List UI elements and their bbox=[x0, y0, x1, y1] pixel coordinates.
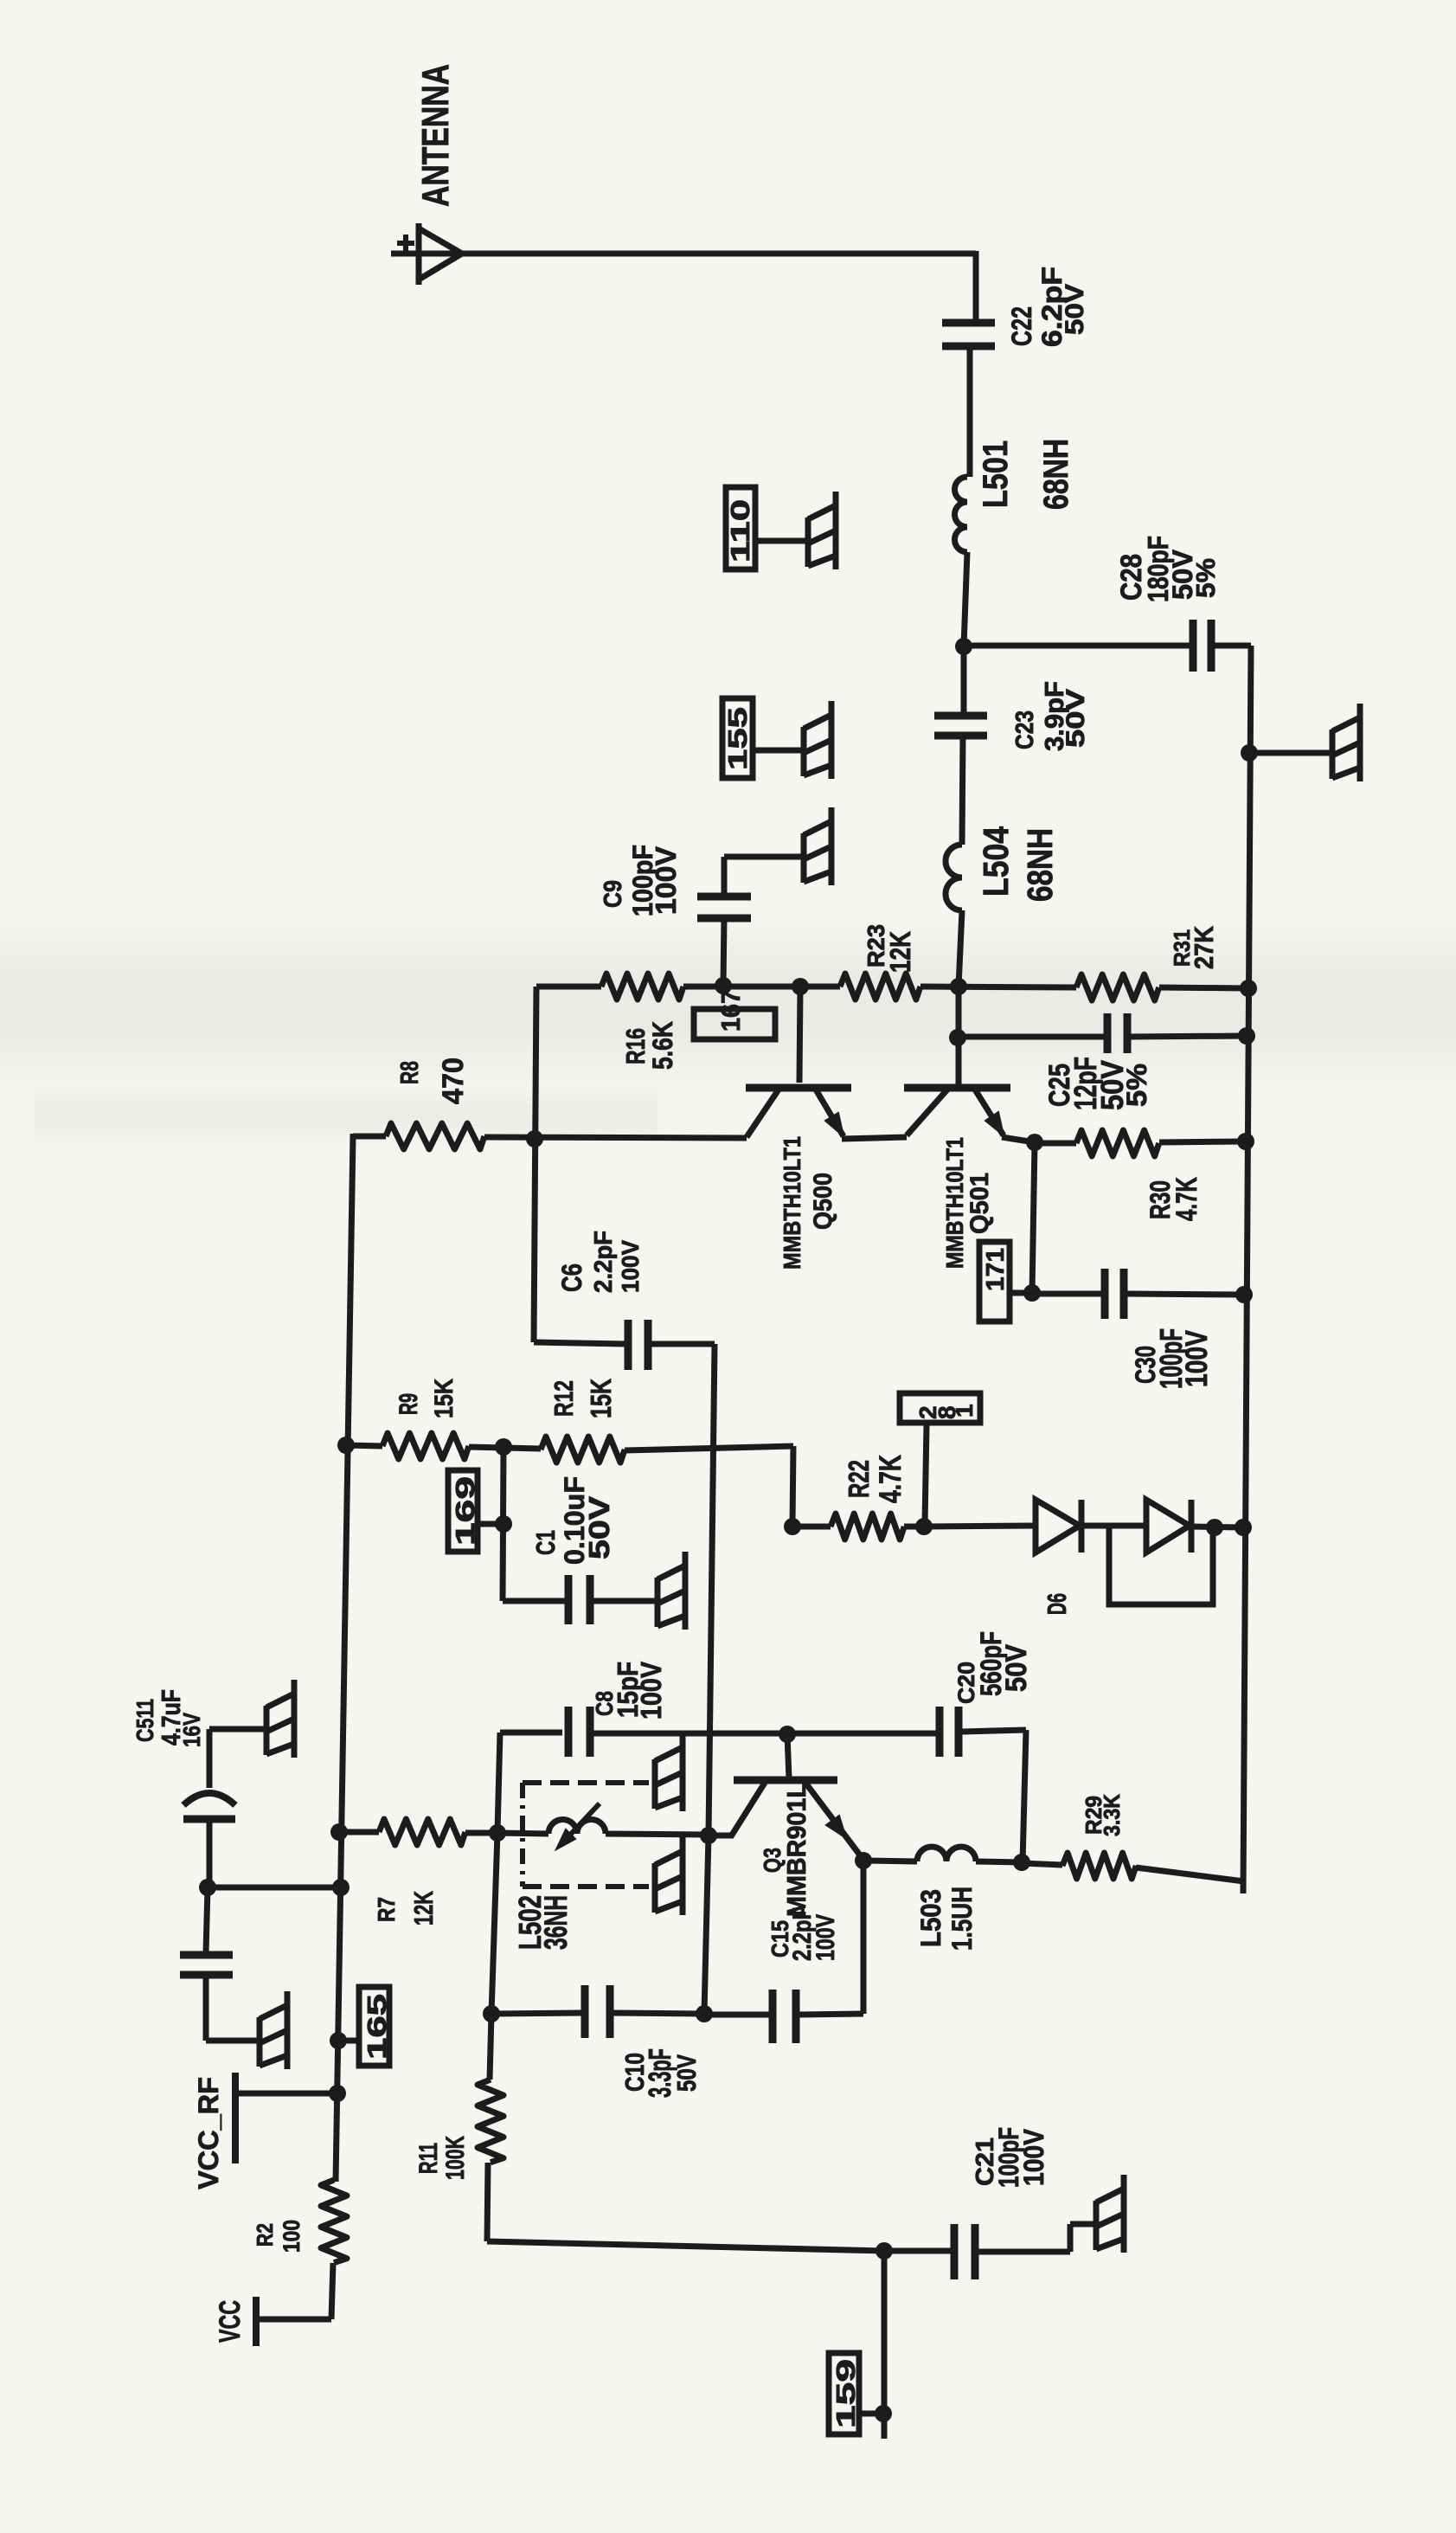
svg-text:3.3K: 3.3K bbox=[1099, 1794, 1125, 1836]
junction bus2 right bbox=[1238, 1027, 1255, 1045]
svg-text:5%: 5% bbox=[1190, 558, 1221, 598]
wire L504 to bus1 bbox=[959, 910, 962, 987]
wire C21 ground step bbox=[1068, 2224, 1074, 2252]
wire bottom bus bbox=[487, 2241, 884, 2251]
svg-text:159: 159 bbox=[831, 2359, 861, 2428]
svg-text:68NH: 68NH bbox=[1020, 828, 1060, 902]
wire R22 right stub bbox=[904, 1524, 924, 1530]
wire bus2 right segment bbox=[1127, 1036, 1247, 1037]
svg-text:R8: R8 bbox=[396, 1061, 424, 1084]
wire C23 to L504 bbox=[962, 736, 963, 845]
svg-text:100K: 100K bbox=[441, 2136, 470, 2180]
antenna symbol bbox=[419, 228, 462, 280]
resistor R12 bbox=[541, 1437, 625, 1463]
wire C20 bus right bbox=[962, 1730, 1026, 1732]
capacitor C30 bbox=[1101, 1269, 1109, 1319]
wire C21 right bbox=[978, 2249, 1070, 2255]
resistor R2 bbox=[321, 2180, 347, 2263]
svg-text:100V: 100V bbox=[650, 846, 682, 915]
wire C511 top leg bbox=[207, 1729, 213, 1788]
junction R22 left bbox=[784, 1518, 801, 1535]
wire net182 leg bbox=[925, 1424, 927, 1525]
svg-text:100V: 100V bbox=[617, 1240, 644, 1293]
svg-text:169: 169 bbox=[450, 1476, 480, 1546]
svg-text:L501: L501 bbox=[977, 440, 1015, 508]
wire C30 right bbox=[1126, 1294, 1244, 1295]
wire Q3 base leg bbox=[787, 1734, 789, 1778]
wire net155 stub bbox=[753, 748, 804, 754]
svg-text:C9: C9 bbox=[600, 880, 627, 908]
svg-text:1.5UH: 1.5UH bbox=[946, 1887, 978, 1951]
junction C10 left bbox=[483, 2005, 500, 2022]
resistor R11 bbox=[478, 2080, 504, 2163]
wire C22 to L501 bbox=[967, 346, 973, 477]
junction L504 bus1 bbox=[950, 978, 967, 995]
resistor R9 bbox=[382, 1433, 469, 1459]
junction C9 bus1 bbox=[715, 977, 732, 994]
svg-text:15K: 15K bbox=[585, 1379, 617, 1418]
chassis ground C1 bbox=[655, 1578, 661, 1627]
chassis ground C1 VCC_RF bbox=[257, 2017, 263, 2067]
junction collector node bbox=[700, 1827, 717, 1844]
svg-text:R22: R22 bbox=[843, 1460, 875, 1498]
wire C20 branch down bbox=[1023, 1730, 1026, 1862]
wire Q501 emitter down bbox=[1032, 1142, 1035, 1293]
wire L502 left bbox=[497, 1833, 548, 1834]
wire net165 stub bbox=[338, 2038, 359, 2044]
junction Q501 emitter bbox=[1026, 1134, 1043, 1151]
wire rail collector to C10 bbox=[704, 1835, 709, 2014]
diode D6 first bbox=[1036, 1500, 1080, 1553]
svg-text:1: 1 bbox=[951, 1404, 978, 1418]
wire VCC wire bbox=[260, 2317, 331, 2323]
wire antenna stub bbox=[391, 251, 419, 257]
svg-text:R9: R9 bbox=[394, 1393, 423, 1415]
junction net169 node bbox=[495, 1515, 512, 1533]
wire C10 right wire bbox=[613, 2013, 704, 2014]
VCC_RF power bar bbox=[232, 2073, 239, 2163]
capacitor C1 VCC_RF bbox=[180, 1951, 233, 1959]
capacitor C8 bbox=[565, 1707, 573, 1757]
wire net169 stub bbox=[478, 1521, 504, 1527]
inductor L503 bbox=[917, 1847, 976, 1861]
junction net159 bbox=[875, 2405, 892, 2422]
junction C10 right bbox=[696, 2005, 713, 2022]
shield box L502 bbox=[523, 1780, 649, 1785]
wire net159 leg bbox=[882, 2251, 888, 2439]
wire bus2 left segment bbox=[958, 1034, 1107, 1040]
resistor R22 bbox=[831, 1514, 904, 1540]
svg-text:Q500: Q500 bbox=[809, 1173, 837, 1230]
wire R9 left bbox=[346, 1445, 382, 1446]
junction net165 rail bbox=[330, 2032, 347, 2049]
svg-text:MMBTH10LT1: MMBTH10LT1 bbox=[779, 1136, 805, 1270]
wire R9-R12 node bbox=[469, 1447, 541, 1449]
net box 167 bbox=[694, 1009, 775, 1039]
wire C6 right to rail bbox=[651, 1341, 715, 1347]
svg-text:50V: 50V bbox=[671, 2054, 702, 2092]
wire C1b bottom leg bbox=[203, 1977, 209, 2041]
chassis ground C511 bbox=[264, 1706, 270, 1755]
resistor R31 bbox=[1076, 974, 1159, 1000]
svg-text:R16: R16 bbox=[620, 1028, 651, 1064]
svg-text:L503: L503 bbox=[915, 1889, 946, 1947]
wire R8 to Q500 collector bbox=[484, 1137, 747, 1138]
svg-text:C23: C23 bbox=[1011, 710, 1039, 749]
wire Q500 base bbox=[799, 987, 800, 1083]
svg-text:Q501: Q501 bbox=[965, 1173, 994, 1234]
svg-text:50V: 50V bbox=[1000, 1644, 1033, 1692]
svg-text:C1: C1 bbox=[530, 1530, 561, 1555]
wire D6 loop bbox=[1109, 1528, 1213, 1604]
capacitor C1 bbox=[565, 1575, 573, 1624]
wire bus1 left segment bbox=[536, 984, 601, 990]
junction D6 bus bbox=[1235, 1519, 1252, 1536]
capacitor C23 bbox=[934, 712, 987, 720]
inductor L502 bbox=[548, 1820, 606, 1835]
svg-text:VCC_RF: VCC_RF bbox=[193, 2077, 224, 2189]
wire R29 left bbox=[1022, 1863, 1062, 1865]
wire VCC_RF stub bbox=[238, 2091, 337, 2097]
chassis ground net155 bbox=[801, 727, 807, 776]
junction Q3 emitter node bbox=[855, 1852, 872, 1869]
junction D6 loop bbox=[1206, 1519, 1223, 1536]
svg-text:165: 165 bbox=[362, 1994, 392, 2060]
chassis ground bottom right bbox=[1094, 2201, 1100, 2250]
net box 169 bbox=[448, 1470, 478, 1552]
diode D6 second bbox=[1146, 1500, 1190, 1553]
net box 159 bbox=[829, 2353, 859, 2434]
wire bus1 left leg down bbox=[534, 987, 536, 1342]
wire R11 lower leg bbox=[490, 2014, 491, 2080]
svg-text:470: 470 bbox=[437, 1058, 470, 1104]
wire R22 left stub bbox=[792, 1524, 831, 1530]
inductor L501 bbox=[955, 477, 968, 552]
transistor Q500 bbox=[746, 1084, 851, 1092]
wire C8 bus mid bbox=[593, 1731, 936, 1737]
junction C511 rail bbox=[332, 1879, 350, 1896]
wire R7 right bbox=[465, 1830, 497, 1836]
wire R22 to D6 bbox=[924, 1526, 1036, 1527]
wire Q3 collector bbox=[709, 1833, 734, 1839]
wire R12 down leg bbox=[792, 1446, 793, 1525]
chassis ground right bus bbox=[1330, 730, 1336, 779]
wire R30 right bbox=[1159, 1141, 1246, 1142]
svg-text:R11: R11 bbox=[414, 2143, 443, 2174]
wire C6 rail down bbox=[709, 1344, 715, 1835]
wire C15 right leg up bbox=[861, 1861, 867, 2014]
junction L503 R29 node bbox=[1013, 1854, 1030, 1871]
net box 165 bbox=[359, 1987, 389, 2066]
capacitor C511 bbox=[183, 1793, 235, 1805]
wire right bus to chassis ground bbox=[1249, 750, 1332, 756]
svg-text:50V: 50V bbox=[583, 1496, 615, 1559]
svg-text:15K: 15K bbox=[430, 1379, 459, 1418]
wire Q500 emitter to Q501 collector bbox=[842, 1137, 907, 1139]
VCC power bar bbox=[253, 2297, 260, 2346]
resistor R16 bbox=[601, 974, 683, 1000]
capacitor C10 bbox=[581, 1985, 589, 2038]
capacitor C6 bbox=[625, 1320, 632, 1370]
svg-text:100V: 100V bbox=[1018, 2128, 1049, 2186]
net box 182 bbox=[900, 1393, 980, 1423]
capacitor C28 bbox=[1190, 620, 1197, 672]
svg-text:5%: 5% bbox=[1121, 1064, 1152, 1107]
junction C1b top bbox=[199, 1879, 216, 1896]
wire bus1 R16-R23 segment bbox=[683, 984, 840, 990]
wire C9 bottom leg bbox=[723, 918, 724, 986]
capacitor C25 bbox=[1104, 1013, 1112, 1053]
wire bus1 R23-R31 segment bbox=[920, 987, 1076, 987]
junction R22 right bbox=[915, 1518, 933, 1535]
wire net159 stub bbox=[861, 2411, 884, 2417]
svg-text:R12: R12 bbox=[548, 1380, 579, 1417]
svg-text:D6: D6 bbox=[1042, 1593, 1072, 1615]
junction Q3 base bus bbox=[779, 1726, 796, 1743]
svg-text:VCC: VCC bbox=[214, 2300, 247, 2343]
wire L504 top leg bbox=[961, 646, 967, 716]
svg-text:C22: C22 bbox=[1006, 306, 1037, 346]
svg-text:100V: 100V bbox=[1180, 1329, 1214, 1387]
wire C8 bus left bbox=[500, 1730, 562, 1736]
svg-text:68NH: 68NH bbox=[1037, 439, 1075, 510]
node A junction bbox=[955, 638, 972, 655]
wire net110 stub bbox=[755, 538, 808, 544]
wire C15 right bbox=[799, 2014, 863, 2015]
wire R11 bottom corner bbox=[487, 2163, 488, 2241]
svg-text:12K: 12K bbox=[408, 1891, 439, 1925]
junction bus1 right bbox=[1240, 980, 1257, 997]
svg-text:110: 110 bbox=[725, 499, 755, 563]
svg-text:5.6K: 5.6K bbox=[647, 1021, 678, 1070]
wire C10 left wire bbox=[491, 2013, 582, 2014]
svg-text:155: 155 bbox=[722, 707, 753, 770]
svg-text:R2: R2 bbox=[252, 2223, 278, 2247]
junction Q500 base bus1 bbox=[792, 978, 809, 995]
junction right bus ground bbox=[1241, 744, 1258, 762]
wire antenna to C22 corner bbox=[419, 251, 976, 257]
wire R2 bottom leg bbox=[331, 2263, 333, 2319]
svg-text:100V: 100V bbox=[635, 1662, 667, 1720]
resistor R23 bbox=[840, 974, 920, 1000]
resistor R8 bbox=[386, 1123, 484, 1149]
net box 171 bbox=[979, 1242, 1010, 1321]
wire bottom bus to C21 bbox=[884, 2248, 951, 2254]
wire C9 top leg bbox=[722, 857, 728, 897]
junction VCC_RF rail bbox=[329, 2085, 346, 2102]
junction bottom bus bbox=[876, 2242, 893, 2260]
junction R7 node bbox=[489, 1824, 506, 1842]
capacitor C9 bbox=[697, 893, 751, 901]
inductor L502 arrow bbox=[561, 1803, 600, 1845]
junction R9R12 node bbox=[495, 1438, 512, 1456]
wire C511 bottom leg bbox=[207, 1821, 213, 1887]
svg-text:4.7K: 4.7K bbox=[1171, 1177, 1203, 1221]
wire C8 left leg bbox=[497, 1733, 500, 1832]
svg-text:C511: C511 bbox=[131, 1699, 158, 1742]
svg-text:167: 167 bbox=[715, 990, 746, 1032]
chassis ground shield top bbox=[652, 1759, 658, 1809]
wire R12 right bbox=[625, 1446, 793, 1450]
capacitor C15 bbox=[769, 1990, 777, 2043]
wire C15 left bbox=[704, 2012, 770, 2018]
junction C30 node bbox=[1023, 1284, 1041, 1302]
wire L502 right bbox=[606, 1834, 707, 1835]
junction R9 left rail bbox=[337, 1437, 355, 1454]
wire C1b top leg bbox=[206, 1887, 208, 1952]
capacitor C22 bbox=[942, 319, 995, 327]
capacitor C20 bbox=[936, 1707, 944, 1757]
junction bus2 left bbox=[949, 1029, 966, 1046]
svg-text:27K: 27K bbox=[1189, 925, 1219, 969]
wire C511 to rail bbox=[209, 1885, 341, 1891]
resistor R30 bbox=[1076, 1130, 1159, 1156]
svg-text:100: 100 bbox=[279, 2220, 305, 2253]
junction C30 bus bbox=[1235, 1286, 1253, 1303]
inductor L504 bbox=[946, 845, 962, 910]
capacitor C21 bbox=[951, 2224, 959, 2279]
wire R7 left bbox=[339, 1829, 379, 1835]
wire node A to C28 bbox=[964, 643, 1190, 649]
wire R29 right bbox=[1136, 1868, 1244, 1881]
svg-text:100V: 100V bbox=[811, 1914, 840, 1961]
net box 110 bbox=[726, 487, 755, 569]
svg-text:171: 171 bbox=[982, 1248, 1010, 1291]
svg-text:C6: C6 bbox=[556, 1263, 587, 1292]
resistor R7 bbox=[379, 1819, 465, 1845]
wire R30 left bbox=[1035, 1141, 1076, 1147]
svg-text:L504: L504 bbox=[976, 826, 1016, 897]
wire C1b to ground bbox=[206, 2038, 260, 2044]
wire net171 stub bbox=[1007, 1290, 1032, 1296]
wire Q501 base leg bbox=[956, 987, 962, 1085]
junction R7 left rail bbox=[330, 1823, 348, 1841]
svg-text:MMBR901L: MMBR901L bbox=[781, 1783, 811, 1917]
transistor Q3 bbox=[734, 1777, 837, 1784]
wire L503 left bbox=[863, 1861, 917, 1861]
svg-text:12K: 12K bbox=[884, 931, 916, 973]
resistor R29 bbox=[1062, 1853, 1136, 1879]
wire R8 left leg bbox=[350, 1134, 356, 1139]
wire C1 left bbox=[503, 1598, 566, 1604]
wire left rail bbox=[336, 1136, 353, 2182]
wire C30 left bbox=[1032, 1291, 1103, 1297]
wire Q501 emitter node bbox=[1002, 1137, 1035, 1142]
svg-text:36NH: 36NH bbox=[538, 1895, 574, 1950]
junction R8 node bbox=[526, 1130, 543, 1148]
svg-text:R7: R7 bbox=[373, 1897, 400, 1922]
svg-text:4.7K: 4.7K bbox=[874, 1455, 908, 1503]
antenna plus mark bbox=[397, 241, 414, 246]
chassis ground C9 bbox=[801, 833, 807, 883]
svg-text:ANTENNA: ANTENNA bbox=[414, 64, 457, 207]
wire C511 top to ground bbox=[209, 1726, 266, 1733]
wire bus1 R31-bus segment bbox=[1159, 987, 1248, 988]
chassis ground net110 bbox=[805, 518, 811, 567]
svg-text:50V: 50V bbox=[1062, 689, 1090, 748]
svg-text:16V: 16V bbox=[178, 1713, 205, 1747]
svg-text:2.2pF: 2.2pF bbox=[590, 1231, 618, 1293]
wire px581 rail bbox=[503, 1447, 504, 1601]
wire C1 right to ground bbox=[593, 1598, 657, 1604]
wire L501 to node A bbox=[964, 552, 967, 646]
transistor Q501 bbox=[904, 1084, 1010, 1092]
svg-text:50V: 50V bbox=[1061, 284, 1089, 335]
wire C28 to right bus corner bbox=[1215, 643, 1251, 649]
wire L503 right bbox=[976, 1861, 1022, 1862]
net box 155 bbox=[722, 698, 753, 778]
chassis ground shield bottom bbox=[652, 1863, 658, 1913]
svg-text:MMBTH10LT1: MMBTH10LT1 bbox=[941, 1137, 968, 1269]
wire C6 left bbox=[534, 1342, 625, 1344]
scan smudge band bbox=[0, 913, 1456, 1095]
wire R11 top leg bbox=[491, 1833, 497, 2014]
junction R30 bus bbox=[1237, 1133, 1254, 1150]
wire right bus bbox=[1243, 646, 1251, 1893]
